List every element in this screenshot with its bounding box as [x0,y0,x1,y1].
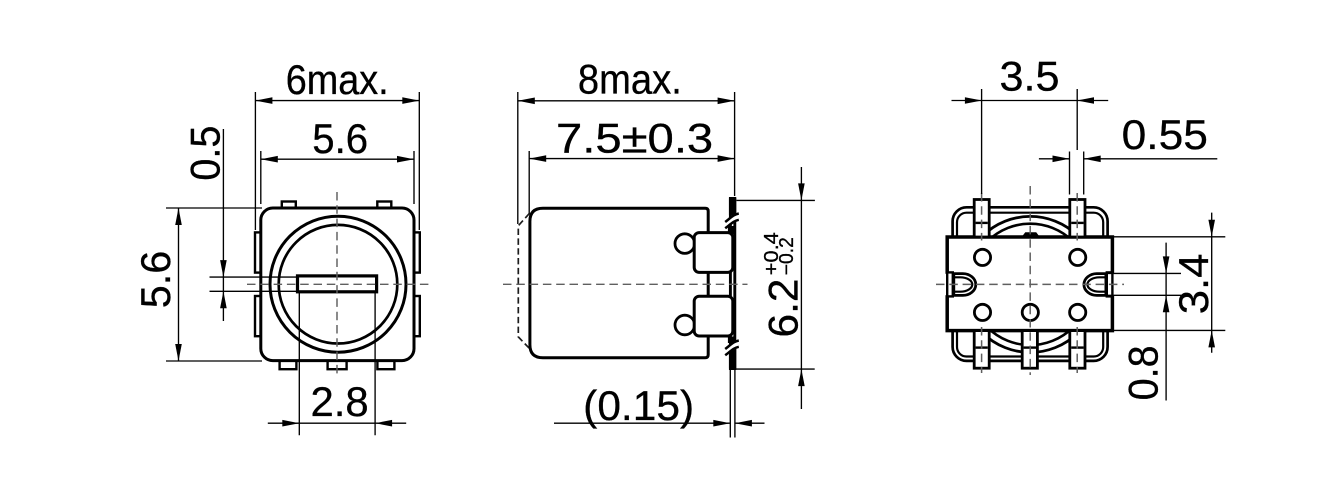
svg-text:6.2: 6.2 [759,279,806,338]
svg-text:3.4: 3.4 [1170,254,1217,315]
svg-text:0.5: 0.5 [182,126,229,181]
svg-text:0.8: 0.8 [1120,345,1167,400]
svg-text:5.6: 5.6 [312,115,368,162]
svg-text:7.5±0.3: 7.5±0.3 [556,114,713,161]
svg-text:2.8: 2.8 [311,378,369,425]
svg-text:0.55: 0.55 [1122,111,1208,158]
svg-text:8max.: 8max. [578,55,682,102]
svg-text:3.5: 3.5 [1000,53,1060,100]
svg-text:−0.2: −0.2 [776,237,798,275]
svg-text:5.6: 5.6 [132,251,179,309]
svg-text:(0.15): (0.15) [583,382,694,429]
svg-text:6max.: 6max. [286,56,389,103]
